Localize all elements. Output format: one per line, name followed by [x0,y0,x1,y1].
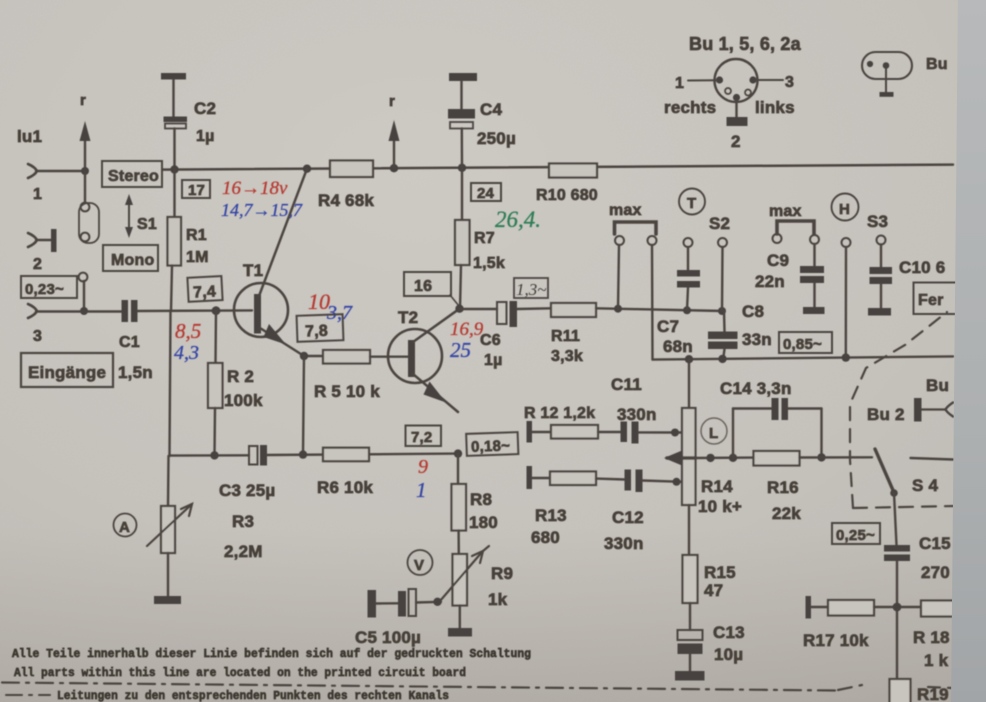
max bracket right [769,203,819,244]
wire max right to tone line [651,245,654,360]
svg-text:H: H [839,201,850,218]
resistor R13 row [527,466,597,547]
svg-text:100k: 100k [224,391,263,410]
svg-text:S3: S3 [867,212,888,231]
svg-text:3,3k: 3,3k [551,348,583,365]
supply arrow r (mid) [389,93,400,168]
svg-text:1: 1 [675,75,684,92]
capacitor C11 [598,375,682,444]
wire base line T1 [138,306,253,315]
capacitor C9 [755,244,825,314]
wire R1 node down to R3 [170,311,171,456]
right gray strip [951,0,986,702]
svg-text:1µ: 1µ [196,128,215,145]
potentiometer R9 [440,546,513,628]
measure circle L [701,418,727,444]
svg-text:22n: 22n [755,272,785,291]
svg-text:25: 25 [450,338,471,362]
svg-text:4,3: 4,3 [174,342,199,364]
box 7,4 [187,276,222,302]
svg-text:T: T [687,195,696,212]
svg-text:R 2: R 2 [227,367,254,386]
capacitor C5 [355,589,442,647]
svg-text:R7: R7 [474,230,495,247]
svg-text:R3: R3 [232,512,254,531]
svg-text:lu1: lu1 [17,127,42,146]
wiper line to R16 [696,454,754,463]
wire T1 emitter down [303,356,304,455]
handwriting 4,3 [174,342,199,364]
svg-text:8,5: 8,5 [175,319,201,343]
potentiometer R14 [664,359,742,516]
svg-text:T1: T1 [243,261,263,280]
svg-text:7,8: 7,8 [305,323,328,341]
label lu1 [17,127,42,146]
supply arrow r (left) [80,92,91,175]
svg-text:T2: T2 [398,308,418,327]
svg-text:22k: 22k [772,504,801,523]
svg-text:C12: C12 [612,508,644,527]
resistor R10 [536,164,598,205]
svg-text:R14: R14 [701,477,733,496]
potentiometer R3 [147,456,263,596]
ground R3 [154,596,181,604]
svg-text:R 12 1,2k: R 12 1,2k [524,405,595,422]
transistor T2 [388,305,464,413]
svg-text:10µ: 10µ [714,645,743,664]
ground above C4 [449,73,477,109]
svg-text:16→18v: 16→18v [222,178,288,199]
measure circle A [114,514,137,537]
box 0,18~ [466,432,518,456]
svg-text:Fer: Fer [918,292,944,309]
resistor R11 [551,303,596,365]
svg-text:C11: C11 [611,375,642,394]
svg-text:Bu: Bu [926,56,948,73]
svg-text:1,3~: 1,3~ [516,280,546,299]
Stereo box [102,161,162,187]
svg-text:3: 3 [785,74,794,91]
svg-text:7,2: 7,2 [411,429,432,446]
box 17 [182,180,210,199]
svg-text:16: 16 [414,278,432,295]
svg-text:R10 680: R10 680 [536,187,598,204]
svg-text:R 5 10 k: R 5 10 k [314,382,380,401]
svg-text:R8: R8 [470,490,492,509]
S1 lower contact [79,273,88,315]
svg-text:R15: R15 [704,563,736,582]
svg-text:R9: R9 [491,564,513,583]
svg-text:C10 6: C10 6 [899,258,945,277]
handwriting 26,4 [495,207,541,232]
svg-text:330n: 330n [604,534,644,553]
svg-text:All parts within this line are: All parts within this line are located o… [14,667,466,680]
tone line [653,353,954,363]
capacitor C10 [868,245,945,316]
svg-text:R4 68k: R4 68k [318,191,374,210]
svg-text:R6 10k: R6 10k [317,478,373,497]
switch S3 [867,212,888,245]
svg-text:V: V [414,557,424,574]
svg-text:180: 180 [469,513,498,532]
svg-text:C14 3,3n: C14 3,3n [720,379,792,398]
svg-text:C3 25µ: C3 25µ [219,481,275,500]
ground R9 [448,628,472,637]
resistor R19 [890,679,949,702]
svg-text:R13: R13 [535,506,567,525]
svg-text:C6: C6 [480,332,501,349]
capacitor C4 [448,100,516,168]
capacitor C12 [596,470,682,554]
svg-text:C4: C4 [480,100,502,119]
svg-text:0,25~: 0,25~ [836,527,875,544]
capacitor C14 loop [720,379,826,462]
capacitor C8 [708,302,772,360]
svg-text:17: 17 [188,182,205,199]
svg-text:2,2M: 2,2M [224,542,263,561]
svg-text:Stereo: Stereo [108,168,159,185]
switch S2 [684,214,731,247]
DIN connector Bu 1,5,6,2a [664,34,802,151]
capacitor C6 [460,301,551,369]
box 7,2 [406,426,442,447]
svg-text:250µ: 250µ [477,129,516,148]
resistor R12 row [524,405,598,443]
svg-text:S1: S1 [137,216,157,233]
text line English PCB note [14,667,466,680]
svg-text:Bu 2: Bu 2 [867,405,905,424]
svg-text:A: A [119,519,130,536]
svg-text:C1: C1 [119,334,140,351]
svg-text:C13: C13 [713,623,745,642]
svg-text:3: 3 [33,328,42,345]
handwriting 16-18v [222,178,288,199]
svg-text:26,4.: 26,4. [495,207,541,232]
svg-text:R 18: R 18 [913,628,950,647]
wire C3 to T2 emitter [210,449,462,459]
svg-text:1µ: 1µ [484,352,503,369]
svg-text:C8: C8 [742,302,764,321]
H contact to tone line [842,238,851,358]
measure circle H [832,194,859,221]
svg-text:47: 47 [704,581,723,600]
svg-text:S2: S2 [709,214,730,233]
dashed PCB boundary bottom [2,683,952,691]
wire max left to node [618,245,619,309]
ground above C2 [161,73,186,117]
text line German PCB note [12,648,531,661]
resistor R6 [317,448,373,497]
box 0,25~ [832,523,880,544]
svg-text:24: 24 [477,185,495,202]
max bracket left [609,202,657,245]
handwriting 14,7-15,7 [221,200,303,220]
capacitor C1 [119,300,140,351]
resistor R1 [168,169,209,311]
resistor R7 [455,168,505,309]
wire node1 to S1 [84,171,86,203]
svg-text:max: max [769,203,802,220]
handwriting 3,7 [326,302,353,324]
dashed PCB boundary bottom-right [853,506,955,508]
svg-text:Mono: Mono [111,252,154,269]
svg-text:2: 2 [731,132,741,151]
box 1,3~ [514,278,548,299]
switch S4 [875,449,953,497]
svg-text:1M: 1M [186,249,209,266]
handwriting 10 [308,289,330,314]
svg-text:Alle Teile innerhalb dieser Li: Alle Teile innerhalb dieser Linie befind… [12,648,531,661]
switch S1 [79,194,157,243]
text line Leitungen note [57,690,449,702]
svg-text:S 4: S 4 [912,476,938,495]
svg-text:C7: C7 [657,317,679,336]
resistor R16 [754,451,873,523]
svg-text:0,18~: 0,18~ [471,437,511,455]
resistor R17 row [803,596,921,650]
handwriting 16,9 [450,319,484,340]
handwriting 9 [418,456,428,478]
svg-text:Leitungen zu den entsprechende: Leitungen zu den entsprechenden Punkten … [57,690,449,702]
svg-text:68n: 68n [663,337,693,356]
svg-text:R11: R11 [551,328,580,345]
ground C13 [675,671,705,681]
svg-text:Bu 1, 5, 6, 2a: Bu 1, 5, 6, 2a [689,34,802,54]
svg-text:3,7: 3,7 [326,302,353,324]
wire S2 right to node [721,247,724,311]
measure circle T [679,189,705,215]
svg-text:1: 1 [416,478,427,502]
box 0,85~ [779,332,832,353]
capacitor C3 [170,445,276,500]
dash before Leitungen [6,694,50,696]
box 16 [404,272,459,306]
svg-text:2: 2 [33,256,42,273]
transistor T1 [234,169,307,356]
resistor R18 [913,601,955,671]
svg-text:0,23~: 0,23~ [25,281,64,298]
resistor R15 [683,505,736,630]
svg-text:330n: 330n [617,405,657,424]
svg-text:C5 100µ: C5 100µ [355,628,421,647]
svg-text:r: r [389,93,395,110]
svg-text:r: r [80,92,86,109]
svg-text:max: max [609,202,642,219]
svg-text:R17 10k: R17 10k [803,631,869,650]
box 24 [471,183,501,202]
handwriting 25 [450,338,471,362]
svg-text:16,9: 16,9 [450,319,484,340]
resistor R8 [452,454,498,554]
connector Bu (stadium) [862,52,948,97]
svg-text:1,5k: 1,5k [473,255,505,272]
svg-text:9: 9 [418,456,428,478]
Fernseh box [914,283,956,315]
handwriting 1 [416,478,427,502]
svg-text:680: 680 [531,528,560,547]
svg-text:C2: C2 [194,99,216,118]
svg-text:C15: C15 [919,534,951,553]
svg-text:Bu: Bu [926,376,949,395]
svg-text:1: 1 [33,186,42,203]
capacitor C7 [657,247,700,356]
input jack 3 [28,304,122,345]
input jack 1 [28,164,85,203]
connector Bu2 [867,398,953,424]
capacitor C2 [164,99,217,169]
supply bus wire [163,164,953,174]
box 7,8 [297,314,344,342]
svg-text:10 k+: 10 k+ [698,497,742,516]
svg-text:C9: C9 [767,251,789,270]
svg-text:R1: R1 [186,227,207,244]
svg-text:1,5n: 1,5n [118,363,153,382]
svg-text:rechts: rechts [664,98,716,117]
resistor R2 [208,311,263,455]
svg-text:0,85~: 0,85~ [783,336,822,353]
label Bu upper right [926,376,949,395]
input jack 2 [28,229,57,273]
svg-text:1k: 1k [488,590,508,609]
box 0,23~ [21,276,77,298]
measure circle V [408,550,433,575]
Mono box [103,245,158,271]
wire R11 to node [596,305,726,315]
svg-text:270: 270 [921,563,950,582]
capacitor C13 [678,623,745,671]
resistor R5 [300,350,408,401]
dashed PCB boundary right diagonal [850,312,947,508]
svg-text:Eingänge: Eingänge [28,363,106,382]
svg-text:7,4: 7,4 [193,283,217,301]
resistor R4 [318,161,374,211]
svg-text:1 k: 1 k [924,651,949,670]
svg-text:L: L [709,425,718,442]
capacitor C15 [884,493,951,679]
svg-text:links: links [755,98,795,117]
svg-text:R16: R16 [767,478,799,497]
svg-text:33n: 33n [742,330,772,349]
Eingaenge box [21,353,153,387]
handwriting 8,5 [175,319,201,343]
